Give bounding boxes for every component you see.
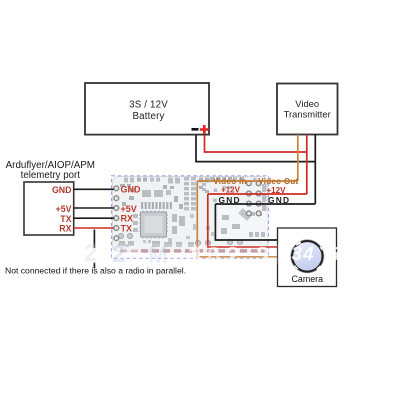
svg-text:2: 2 <box>226 243 239 270</box>
left header pin pads <box>114 186 119 241</box>
telemetry port J1 box <box>24 182 74 235</box>
svg-text:3: 3 <box>256 243 269 270</box>
svg-text:3: 3 <box>292 244 303 265</box>
svg-text:GND: GND <box>219 195 241 205</box>
svg-text:Camera: Camera <box>292 274 324 284</box>
wire telemetry GND (black) <box>74 188 114 190</box>
wire GND to camera (black) <box>215 204 277 240</box>
svg-text:Transmitter: Transmitter <box>284 108 331 119</box>
diagonal component <box>238 208 252 221</box>
svg-text:5: 5 <box>328 244 340 266</box>
svg-text:RX: RX <box>121 214 134 224</box>
marquee selection dashed border <box>112 176 269 258</box>
svg-text:4: 4 <box>302 244 314 265</box>
battery B1 box <box>85 83 209 135</box>
svg-text:TX: TX <box>121 224 133 234</box>
svg-text:M: M <box>148 242 168 269</box>
svg-text:3S / 12V: 3S / 12V <box>129 100 168 111</box>
wire telemetry RX to TX pin (red) <box>74 227 114 229</box>
svg-text:GND: GND <box>268 195 290 205</box>
battery plus terminal <box>200 125 209 134</box>
svg-text:+5V: +5V <box>56 204 72 214</box>
wire transmitter video drop (orange) <box>297 135 299 182</box>
OSD board U1 (PCB photo) <box>112 176 269 259</box>
not-connected indicator line <box>93 230 95 249</box>
right header pin pads (video columns) <box>247 181 262 216</box>
svg-text:TX: TX <box>60 214 71 224</box>
wire battery minus to transmitter GND (black) <box>196 135 315 162</box>
wire telemetry TX to RX pin (black) <box>74 217 114 219</box>
bottom maroon pad row <box>120 249 138 252</box>
wire transmitter +12V drop (red) <box>306 135 308 195</box>
svg-text:+12V: +12V <box>267 186 287 195</box>
wire telemetry +5V (black) <box>74 207 114 209</box>
row of pads above QFP <box>141 202 172 209</box>
camera U3 box <box>278 228 337 287</box>
battery minus terminal <box>192 128 199 131</box>
top strip extra components <box>120 177 244 209</box>
svg-text:RX: RX <box>59 224 71 234</box>
wire GND bus row (black) <box>215 203 315 205</box>
wire +12V bus row (red) <box>208 193 307 195</box>
pcb texture components <box>119 177 267 247</box>
round pads bottom left <box>118 233 242 245</box>
svg-text:3: 3 <box>188 243 201 270</box>
svg-text:2: 2 <box>84 240 97 267</box>
QFP chip <box>141 212 167 237</box>
camera lens <box>292 241 323 272</box>
svg-text:0: 0 <box>207 243 220 270</box>
pin pad squares <box>208 178 266 203</box>
svg-text:GND: GND <box>52 185 72 195</box>
wire video bus row (orange) <box>197 180 297 182</box>
wire +12V to camera (red) <box>208 194 278 247</box>
wire battery plus to +12V (red) <box>205 135 307 152</box>
wire video bus row overlay (orange over labels) <box>197 180 297 182</box>
svg-text:2: 2 <box>112 241 125 268</box>
svg-text:+5V: +5V <box>121 204 137 214</box>
lower band tiny components <box>118 214 214 247</box>
svg-text:GND: GND <box>121 185 142 195</box>
svg-text:+12V: +12V <box>221 186 241 195</box>
video transmitter U2 box <box>277 84 338 135</box>
video section lighter area <box>218 206 268 239</box>
watermark overlay <box>85 244 280 264</box>
wire camera video (orange) <box>197 181 277 257</box>
wire transmitter GND drop (black) <box>314 135 316 205</box>
svg-text:Battery: Battery <box>132 111 164 122</box>
svg-text:telemetry port: telemetry port <box>21 170 81 181</box>
